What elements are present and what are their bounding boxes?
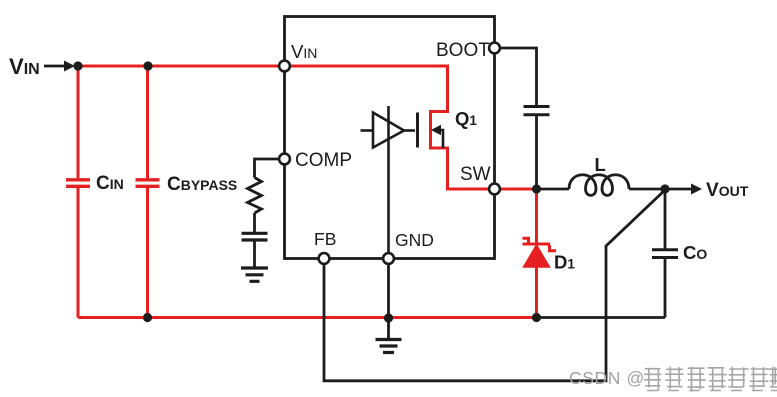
pin FB circle — [319, 253, 330, 264]
svg-text:CO: CO — [683, 242, 707, 263]
svg-text:BOOT: BOOT — [436, 40, 490, 61]
node: junction dot VOUT — [660, 184, 669, 193]
pin BOOT circle — [489, 43, 500, 54]
transistor Q1 body connection arrow — [431, 125, 443, 148]
capacitor CBYPASS body — [136, 66, 160, 318]
svg-text:FB: FB — [314, 229, 336, 249]
wire: SW junction to inductor — [537, 188, 570, 191]
transistor Q1 gate bar — [416, 113, 419, 148]
wire: bootstrap capacitor to SW node — [535, 116, 538, 189]
capacitor Co — [652, 189, 678, 318]
wire: red ground bottom rail — [78, 316, 537, 319]
svg-text:CSDN @: CSDN @ — [569, 368, 645, 388]
wire: COMP pin to compensation network — [255, 159, 282, 178]
wire: BOOT to bootstrap capacitor — [500, 48, 537, 106]
pin GND circle — [383, 253, 394, 264]
wire: red SW node down to diode D1 — [535, 189, 538, 318]
capacitor bootstrap plates — [524, 107, 550, 115]
wire: VIN input lead — [44, 65, 66, 68]
pin VIN circle — [279, 61, 290, 72]
inductor L — [569, 175, 629, 196]
diode D1 (schottky) — [523, 238, 557, 267]
ground symbol (GND pin) — [376, 340, 402, 353]
wire: red input top rail — [78, 65, 448, 68]
IC block outline — [285, 17, 495, 259]
wire: resistor to comp capacitor — [253, 213, 256, 232]
ground symbol (compensation) — [241, 268, 268, 281]
node: junction dot input 1 — [73, 61, 82, 70]
svg-text:GND: GND — [395, 230, 434, 250]
node: junction dot input 2 — [143, 61, 152, 70]
wire: feedback FB to output divider — [324, 190, 665, 381]
node: junction dot GND rail — [384, 313, 393, 322]
pin SW circle — [489, 184, 500, 195]
node: output arrowhead — [691, 184, 702, 195]
svg-text:COMP: COMP — [295, 150, 352, 171]
wire: GND pin to ground — [387, 262, 390, 339]
svg-text:VOUT: VOUT — [706, 180, 749, 201]
wire: inductor to VOUT node — [629, 188, 665, 191]
capacitor CIN body — [66, 66, 90, 318]
wire: comp capacitor to ground — [253, 241, 256, 267]
wire: driver bias line to GND — [387, 106, 390, 258]
svg-text:CIN: CIN — [96, 173, 124, 194]
svg-text:VIN: VIN — [291, 41, 317, 62]
capacitor compensation plates — [242, 233, 268, 240]
node: junction dot D1 anode — [532, 313, 541, 322]
watermark CJK glyph strokes — [644, 367, 777, 392]
node: junction dot bottom rail Cbypass — [143, 313, 152, 322]
resistor compensation — [248, 178, 262, 214]
svg-text:L: L — [595, 154, 606, 175]
wire: red SW to inductor junction — [499, 188, 537, 191]
op-amp driver triangle U1 — [373, 113, 404, 148]
wire: driver output to gate — [404, 129, 415, 132]
svg-text:SW: SW — [460, 164, 491, 185]
node: input arrowhead — [64, 61, 75, 72]
node: junction dot SW — [532, 184, 541, 193]
svg-text:CBYPASS: CBYPASS — [167, 174, 237, 195]
pin COMP circle — [279, 154, 290, 165]
wire: red drain feed and MOSFET channel — [431, 65, 493, 190]
wire: VOUT lead — [665, 188, 692, 191]
wire: output ground return — [537, 316, 666, 319]
wire: driver input stub — [361, 129, 374, 132]
